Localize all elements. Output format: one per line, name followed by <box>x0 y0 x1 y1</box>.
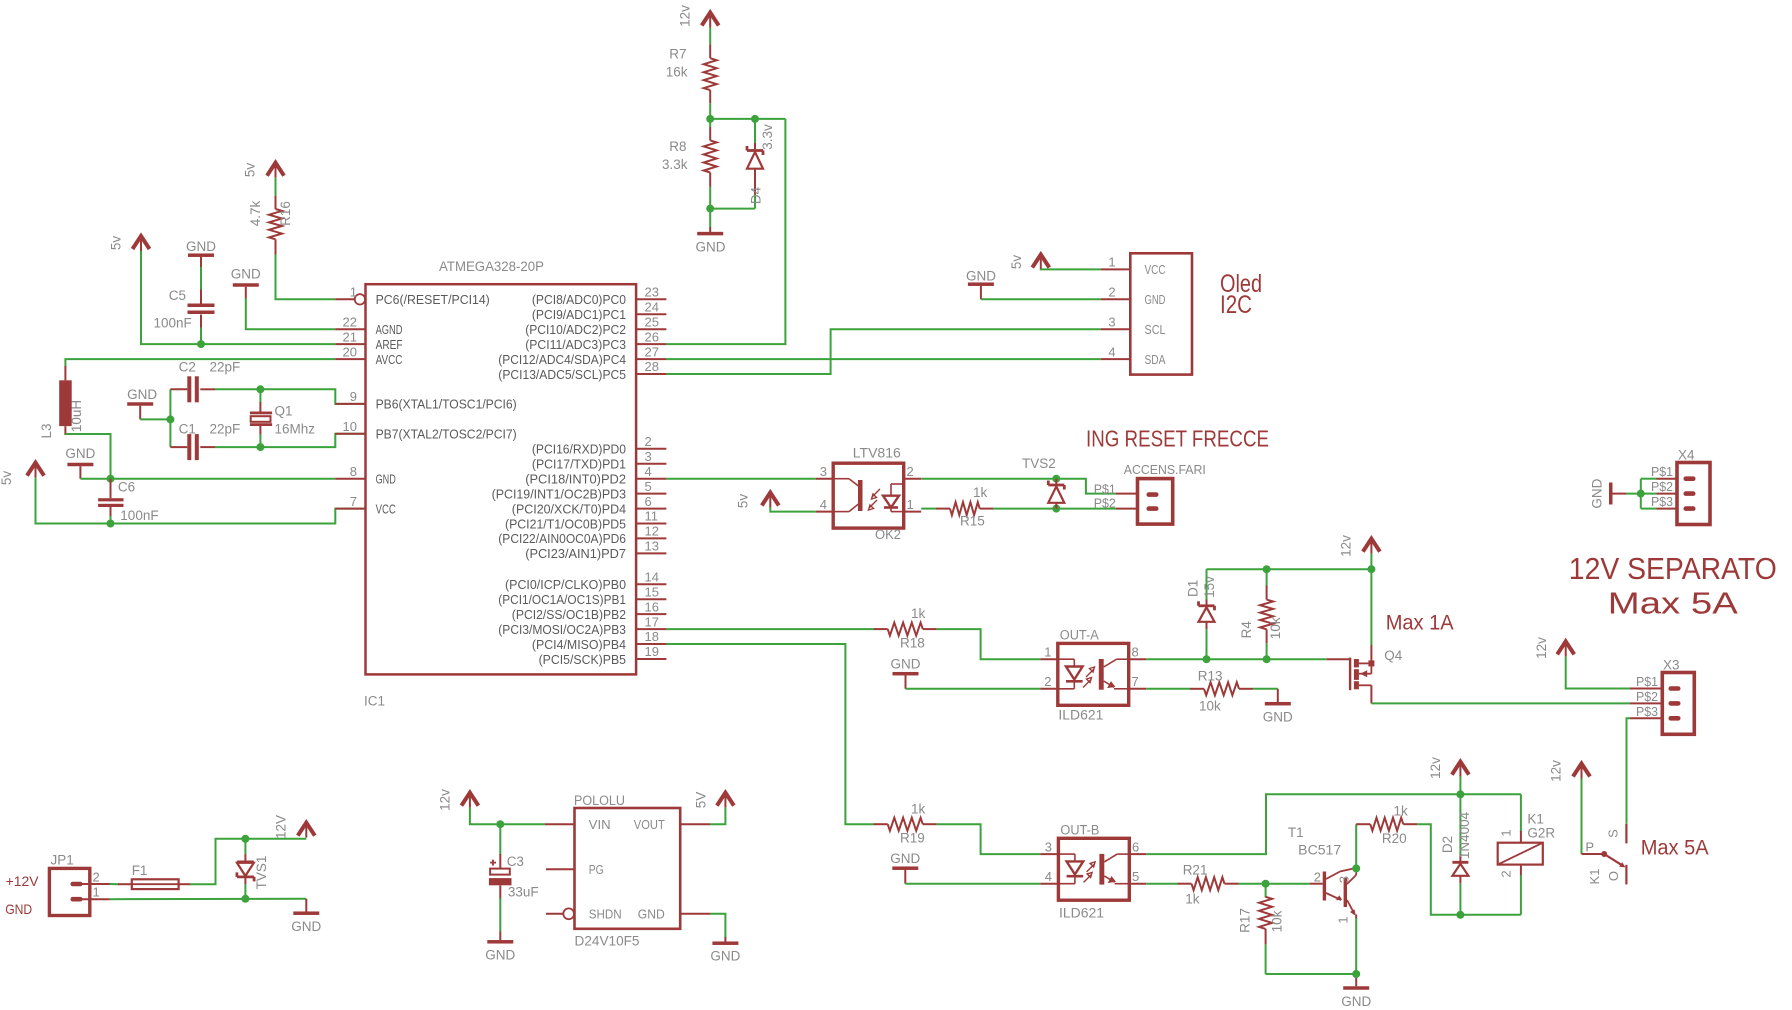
power flag 5v (VCC row) <box>27 463 44 476</box>
svg-text:12v: 12v <box>438 789 453 811</box>
wire IC1 pin 17 to R18 <box>666 628 874 630</box>
IC1 pin 16 (PCI2/SS/OC1B)PB2 <box>636 613 666 615</box>
resistor R7 16k <box>709 44 711 58</box>
wire POLOLU GND <box>710 914 725 938</box>
svg-text:VCC: VCC <box>376 501 396 516</box>
svg-text:R17: R17 <box>1238 908 1253 933</box>
wire C2 to pin 9 <box>215 389 366 404</box>
svg-text:AREF: AREF <box>376 337 403 352</box>
svg-text:5: 5 <box>1132 869 1139 884</box>
svg-text:2: 2 <box>1314 870 1321 885</box>
svg-text:ATMEGA328-20P: ATMEGA328-20P <box>439 258 544 274</box>
wire 12v rail (D1 top) <box>1207 568 1372 570</box>
wire IC1 pin 18 to R19 <box>666 644 874 824</box>
node R7/R8/D4 junction <box>706 115 714 123</box>
svg-text:PG: PG <box>589 862 604 877</box>
svg-text:7: 7 <box>350 494 357 509</box>
wire R15 to TVS2 bottom <box>993 508 1056 510</box>
svg-text:25: 25 <box>645 314 659 329</box>
wire 12v to relay pole <box>1581 779 1583 855</box>
wire GND to C5 <box>200 267 202 290</box>
node C1/Q1 junction <box>256 443 264 451</box>
power flag 5v (POLOLU VOUT) <box>717 793 734 806</box>
svg-text:GND: GND <box>696 240 726 255</box>
IC1 pin 26 (PCI11/ADC3)PC3 <box>636 343 666 345</box>
resistor R15 1k <box>936 508 950 510</box>
svg-text:23: 23 <box>645 285 659 300</box>
svg-text:5v: 5v <box>736 494 751 509</box>
transistor T1 BC517 <box>1310 883 1323 885</box>
node TVS1 bottom junction <box>241 895 249 903</box>
node TVS1 top junction <box>241 835 249 843</box>
power flag 12v (R7 top) <box>702 13 719 26</box>
svg-text:R19: R19 <box>900 831 925 846</box>
wire 12v to R7 <box>709 28 711 45</box>
svg-text:PB6(XTAL1/TOSC1/PCI6): PB6(XTAL1/TOSC1/PCI6) <box>376 397 517 412</box>
wire C5 to junction <box>200 328 202 345</box>
svg-text:(PCI11/ADC3)PC3: (PCI11/ADC3)PC3 <box>525 337 626 352</box>
svg-text:R8: R8 <box>669 139 686 154</box>
svg-text:3.3k: 3.3k <box>662 157 688 172</box>
diode D2 1N4004 <box>1459 794 1461 855</box>
resistor R13 10k <box>1190 688 1204 690</box>
svg-text:Q1: Q1 <box>275 404 293 419</box>
wire crystal GND <box>140 418 170 420</box>
POLOLU pin VIN <box>545 823 575 825</box>
svg-text:26: 26 <box>645 329 659 344</box>
ground GND (C3) <box>499 932 501 940</box>
wire rail to Q4 drain <box>1370 569 1372 645</box>
IC1 pin 28 (PCI13/ADC5/SCL)PC5 <box>636 373 666 375</box>
svg-text:5: 5 <box>645 479 652 494</box>
svg-text:4: 4 <box>645 464 652 479</box>
svg-text:(PCI0/ICP/CLKO)PB0: (PCI0/ICP/CLKO)PB0 <box>505 577 626 592</box>
svg-text:1: 1 <box>1044 644 1051 659</box>
IC1 pin 12 (PCI22/AIN0OC0A)PD6 <box>636 537 666 539</box>
svg-text:1k: 1k <box>911 606 926 621</box>
svg-text:C3: C3 <box>507 854 524 869</box>
IC1 pin 14 (PCI0/ICP/CLKO)PB0 <box>636 583 666 585</box>
power flag 12v (relay) <box>1452 762 1469 775</box>
wire X3 P$3 to relay S <box>1627 718 1631 824</box>
wire GND to OLED pin 2 <box>981 298 1101 300</box>
resistor R20 1k <box>1356 823 1370 825</box>
svg-text:IC1: IC1 <box>364 694 385 709</box>
wire OK2 pin 2 to TVS2 <box>921 478 1056 480</box>
IC1 pin 19 (PCI5/SCK)PB5 <box>636 658 666 660</box>
wire R8 to lower node <box>709 187 711 228</box>
svg-text:C6: C6 <box>118 480 135 495</box>
ground GND (T1 emitter) <box>1355 974 1357 986</box>
svg-text:GND: GND <box>1341 994 1371 1009</box>
node TVS2 bottom junction <box>1052 505 1060 513</box>
svg-text:5V: 5V <box>694 792 709 809</box>
svg-text:LTV816: LTV816 <box>853 446 901 461</box>
wire 5v to AREF row <box>141 251 335 344</box>
svg-text:+12V: +12V <box>6 873 40 889</box>
svg-text:13: 13 <box>645 539 659 554</box>
IC1 pin 21 AREF <box>335 343 365 345</box>
svg-text:9: 9 <box>350 389 357 404</box>
svg-text:14: 14 <box>645 569 659 584</box>
svg-text:10k: 10k <box>1270 910 1285 932</box>
svg-text:(PCI22/AIN0OC0A)PD6: (PCI22/AIN0OC0A)PD6 <box>498 531 626 546</box>
power flag 12v (X3 P$1) <box>1557 641 1574 654</box>
POLOLU pin SHDN <box>546 913 563 915</box>
svg-text:6: 6 <box>645 494 652 509</box>
power flag 5v (OLED VCC) <box>1032 255 1049 268</box>
svg-text:ILD621: ILD621 <box>1059 905 1104 920</box>
ground GND (R8 bottom) <box>709 227 711 232</box>
svg-text:P$3: P$3 <box>1651 494 1673 509</box>
wire TVS2 to ACCENS.FARI P$1 <box>1056 479 1116 494</box>
wire 12v to rail <box>1370 554 1372 570</box>
optocoupler OUT-B ILD621 <box>1058 838 1129 900</box>
connector X4 <box>1677 463 1710 525</box>
svg-text:4: 4 <box>1108 344 1115 359</box>
wire lower node to D4 anode <box>710 208 755 210</box>
svg-text:10k: 10k <box>1199 699 1221 714</box>
capacitor C2 22pF <box>170 388 187 390</box>
svg-text:3: 3 <box>1108 314 1115 329</box>
svg-text:GND: GND <box>291 919 321 934</box>
svg-text:AVCC: AVCC <box>376 352 403 367</box>
svg-text:PB7(XTAL2/TOSC2/PCI7): PB7(XTAL2/TOSC2/PCI7) <box>376 427 517 442</box>
wire node to D4 column <box>710 118 785 120</box>
node C6/VCC junction <box>107 520 115 528</box>
svg-text:X3: X3 <box>1663 658 1680 673</box>
svg-text:(PCI8/ADC0)PC0: (PCI8/ADC0)PC0 <box>532 292 626 307</box>
IC1 pin 1 PC6(/RESET/PCI14) <box>335 298 354 300</box>
svg-text:21: 21 <box>343 329 357 344</box>
IC1 pin 15 (PCI1/OC1A/OC1S)PB1 <box>636 598 666 600</box>
resistor R21 1k <box>1178 883 1192 885</box>
wire 5v to R16 <box>275 178 277 196</box>
svg-text:5v: 5v <box>1009 255 1024 270</box>
node C3 junction <box>496 820 504 828</box>
svg-text:JP1: JP1 <box>51 853 74 868</box>
svg-text:3: 3 <box>1045 839 1052 854</box>
svg-text:3.3v: 3.3v <box>760 124 775 150</box>
svg-text:Max 5A: Max 5A <box>1608 586 1738 621</box>
svg-text:2: 2 <box>907 464 914 479</box>
node D2 bottom junction <box>1456 911 1464 919</box>
svg-text:(PCI10/ADC2)PC2: (PCI10/ADC2)PC2 <box>525 322 626 337</box>
wire R21 to T1 base <box>1239 883 1310 885</box>
IC1 pin 10 PB7(XTAL2/TOSC2/PCI7) <box>335 433 365 435</box>
svg-text:(PCI21/T1/OC0B)PD5: (PCI21/T1/OC0B)PD5 <box>505 516 626 531</box>
svg-text:SDA: SDA <box>1145 352 1166 367</box>
wire OUT-B pin 6 to 12v rail <box>1146 794 1521 854</box>
svg-text:C1: C1 <box>179 422 196 437</box>
svg-text:R13: R13 <box>1198 669 1223 684</box>
capacitor C5 100nF <box>200 290 202 304</box>
svg-text:PC6(/RESET/PCI14): PC6(/RESET/PCI14) <box>376 292 490 307</box>
svg-text:12v: 12v <box>1428 757 1443 779</box>
connector ACCENS.FARI <box>1138 479 1173 524</box>
IC1 pin 4 (PCI18/INT0)PD2 <box>636 478 666 480</box>
svg-text:OK2: OK2 <box>875 527 901 542</box>
svg-text:GND: GND <box>485 948 515 963</box>
node R17 top junction <box>1262 880 1270 888</box>
svg-text:GND: GND <box>186 239 216 254</box>
svg-text:K1: K1 <box>1527 811 1544 826</box>
resistor R16 4.7k <box>275 196 277 209</box>
svg-text:12V SEPARATO: 12V SEPARATO <box>1569 551 1777 586</box>
zener TVS2 <box>1055 479 1057 484</box>
svg-text:8: 8 <box>1132 644 1139 659</box>
svg-text:GND: GND <box>890 851 920 866</box>
power flag 12v (input) <box>298 823 315 836</box>
svg-text:(PCI13/ADC5/SCL)PC5: (PCI13/ADC5/SCL)PC5 <box>498 367 626 382</box>
svg-text:D2: D2 <box>1440 836 1455 853</box>
svg-text:22: 22 <box>343 314 357 329</box>
wire 12v to relay rail <box>1459 777 1461 795</box>
svg-text:GND: GND <box>5 901 32 917</box>
svg-text:GND: GND <box>710 949 740 964</box>
svg-text:(PCI18/INT0)PD2: (PCI18/INT0)PD2 <box>525 472 626 487</box>
node L3/C6 junction <box>107 475 115 483</box>
wire IC1 pin 4 to OK2 pin 3 <box>666 478 815 480</box>
wire GND to OUT-A pin 2 <box>906 688 1041 690</box>
IC1 pin 8 GND <box>335 478 365 480</box>
wire 5v to OLED pin 1 <box>1041 268 1101 270</box>
svg-text:Q4: Q4 <box>1384 648 1403 663</box>
connector X3 <box>1662 673 1694 735</box>
svg-text:2: 2 <box>1499 870 1514 877</box>
svg-text:D4: D4 <box>749 186 764 204</box>
svg-text:2: 2 <box>1044 674 1051 689</box>
svg-text:100nF: 100nF <box>120 508 158 523</box>
wire R16 to RESET pin 1 <box>276 255 336 300</box>
svg-text:2: 2 <box>645 434 652 449</box>
node crystal GND junction <box>166 415 174 423</box>
svg-text:R20: R20 <box>1382 831 1407 846</box>
wire R20 to bottom rail <box>1417 824 1521 915</box>
svg-text:ING RESET FRECCE: ING RESET FRECCE <box>1086 426 1269 452</box>
power flag 12v (relay common) <box>1573 764 1590 777</box>
svg-text:(PCI12/ADC4/SDA)PC4: (PCI12/ADC4/SDA)PC4 <box>498 352 626 367</box>
svg-text:(PCI5/SCK)PB5: (PCI5/SCK)PB5 <box>539 652 626 667</box>
power flag 12v (Q4 drain) <box>1363 539 1380 552</box>
wire C1 to pin 10 <box>215 434 366 447</box>
svg-text:1N4004: 1N4004 <box>1457 811 1472 859</box>
svg-text:P$1: P$1 <box>1636 674 1658 689</box>
wire JP1 pin 2 to F1 <box>110 883 120 885</box>
wire GND row to pin 8 <box>80 478 335 480</box>
crystal Q1 16Mhz <box>259 389 261 403</box>
svg-text:1k: 1k <box>1394 804 1409 819</box>
wire OUT-A pin 8 to gate node <box>1146 658 1327 660</box>
wire AVCC pin 20 to L3 <box>65 359 335 367</box>
svg-text:P$2: P$2 <box>1636 689 1658 704</box>
wire R13 to GND <box>1253 688 1278 690</box>
svg-text:7: 7 <box>1132 674 1139 689</box>
IC1 pin 24 (PCI9/ADC1)PC1 <box>636 313 666 315</box>
connector U2 Oled I2C <box>1130 253 1192 374</box>
node emitter GND junction <box>1352 970 1360 978</box>
power flag 5v (OK2 pin 4) <box>762 493 779 506</box>
node R8/D4 bottom junction <box>706 205 714 213</box>
power flag 12v (POLOLU VIN) <box>461 793 478 806</box>
svg-text:POLOLU: POLOLU <box>574 793 625 808</box>
svg-text:TVS1: TVS1 <box>254 856 269 890</box>
svg-text:T1: T1 <box>1288 825 1304 840</box>
inductor L3 10uH <box>64 366 66 380</box>
IC1 pin 5 (PCI19/INT1/OC2B)PD3 <box>636 493 666 495</box>
power flag 5v (AREF) <box>133 236 150 249</box>
svg-text:TVS2: TVS2 <box>1022 456 1056 471</box>
zener TVS1 <box>244 839 246 855</box>
svg-text:GND: GND <box>891 657 921 672</box>
svg-text:10k: 10k <box>1268 617 1283 639</box>
svg-text:VCC: VCC <box>1145 262 1166 277</box>
svg-text:GND: GND <box>1590 478 1605 508</box>
svg-text:K1: K1 <box>1587 869 1602 885</box>
resistor R18 1k <box>874 628 888 630</box>
power flag 5v (R16 top) <box>267 163 284 176</box>
POLOLU pin PG <box>546 868 575 870</box>
svg-text:P$1: P$1 <box>1651 464 1673 479</box>
svg-text:R16: R16 <box>278 201 293 226</box>
wire SDA pin 27 to OLED pin 4 <box>666 358 1100 360</box>
svg-text:O: O <box>1606 871 1621 881</box>
svg-text:F1: F1 <box>132 863 148 878</box>
svg-text:D1: D1 <box>1186 580 1201 597</box>
svg-text:R21: R21 <box>1183 863 1208 878</box>
svg-text:(PCI19/INT1/OC2B)PD3: (PCI19/INT1/OC2B)PD3 <box>492 486 626 501</box>
resistor R19 1k <box>874 823 888 825</box>
svg-text:12v: 12v <box>1534 637 1549 659</box>
svg-text:SCL: SCL <box>1145 322 1166 337</box>
wire GND to AGND pin 22 <box>246 298 335 329</box>
svg-text:11: 11 <box>645 509 659 524</box>
IC1 pin 7 VCC <box>335 508 365 510</box>
wire C6 to VCC row <box>110 516 112 524</box>
svg-text:10: 10 <box>343 419 357 434</box>
wire 5v VCC row to pin 7 <box>36 478 366 524</box>
svg-text:X4: X4 <box>1678 448 1695 463</box>
svg-text:4: 4 <box>1045 869 1052 884</box>
svg-text:R4: R4 <box>1239 621 1254 639</box>
svg-text:1k: 1k <box>911 802 926 817</box>
svg-text:GND: GND <box>638 907 665 922</box>
wire crystal left rail <box>169 389 171 447</box>
IC1 pin 18 (PCI4/MISO)PB4 <box>636 643 666 645</box>
IC1 pin 6 (PCI20/XCK/T0)PD4 <box>636 508 666 510</box>
POLOLU pin VOUT <box>680 823 710 825</box>
svg-text:1: 1 <box>350 285 357 300</box>
node R4 bottom junction <box>1263 655 1271 663</box>
optocoupler OK2 LTV816 <box>833 463 904 528</box>
ground GND (R13) <box>1277 689 1279 702</box>
svg-text:R18: R18 <box>900 636 925 651</box>
svg-text:1: 1 <box>1499 829 1514 836</box>
IC1 pin 17 (PCI3/MOSI/OC2A)PB3 <box>636 628 666 630</box>
svg-text:VOUT: VOUT <box>634 817 665 832</box>
svg-text:19: 19 <box>645 644 659 659</box>
svg-text:1: 1 <box>907 497 914 512</box>
wire JP1 pin 1 GND row <box>110 898 307 900</box>
svg-text:VIN: VIN <box>589 817 611 832</box>
svg-text:4.7k: 4.7k <box>248 200 263 226</box>
IC1 pin 11 (PCI21/T1/OC0B)PD5 <box>636 523 666 525</box>
wire collector to R20 <box>1355 824 1357 868</box>
svg-text:L3: L3 <box>39 423 54 438</box>
capacitor C6 100nF <box>110 479 112 499</box>
svg-text:GND: GND <box>1145 292 1166 307</box>
IC1 pin 9 PB6(XTAL1/TOSC1/PCI6) <box>335 403 365 405</box>
relay K1 coil <box>1520 794 1522 832</box>
svg-text:GND: GND <box>127 387 157 402</box>
svg-text:12v: 12v <box>678 5 693 27</box>
resistor R4 10k <box>1266 569 1268 586</box>
svg-text:15: 15 <box>645 584 659 599</box>
node R4 top junction <box>1263 565 1271 573</box>
relay K1 switch <box>1582 853 1603 855</box>
svg-text:P: P <box>1585 839 1594 854</box>
svg-text:P$1: P$1 <box>1094 481 1116 496</box>
wire R18 to OUT-A pin 1 <box>937 629 1041 659</box>
svg-text:SHDN: SHDN <box>589 907 622 922</box>
svg-text:2: 2 <box>93 869 100 884</box>
capacitor C1 22pF <box>170 446 187 448</box>
wire X4 bus <box>1641 478 1657 480</box>
wire pin 7 to R13 <box>1146 688 1190 690</box>
IC1 pin 25 (PCI10/ADC2)PC2 <box>636 328 666 330</box>
svg-text:24: 24 <box>645 299 659 314</box>
wire T1 emitter down <box>1355 918 1357 974</box>
svg-text:Max 1A: Max 1A <box>1386 612 1454 635</box>
resistor R17 10k <box>1265 884 1267 898</box>
IC1 pin 27 (PCI12/ADC4/SDA)PC4 <box>636 358 666 360</box>
svg-text:12v: 12v <box>1549 760 1564 782</box>
svg-text:1: 1 <box>1336 916 1351 923</box>
svg-text:17: 17 <box>645 614 659 629</box>
svg-text:C5: C5 <box>169 288 186 303</box>
node D4 top junction <box>751 115 759 123</box>
wire TVS2 to P$2 <box>1056 508 1116 510</box>
node TVS2 top junction <box>1052 475 1060 483</box>
node T1 collector junction <box>1352 864 1360 872</box>
svg-text:12v: 12v <box>1339 535 1354 557</box>
svg-text:12V: 12V <box>274 815 289 839</box>
svg-text:27: 27 <box>645 344 659 359</box>
zener diode D1 15v <box>1206 569 1208 600</box>
svg-text:1: 1 <box>1108 255 1115 270</box>
IC1 pin 3 (PCI17/TXD)PD1 <box>636 463 666 465</box>
node D1 bottom junction <box>1203 655 1211 663</box>
wire VOUT to 5v <box>710 808 725 825</box>
svg-text:8: 8 <box>350 464 357 479</box>
node C2/Q1 junction <box>256 385 264 393</box>
svg-text:(PCI17/TXD)PD1: (PCI17/TXD)PD1 <box>532 457 626 472</box>
node 12v rail junction <box>1367 565 1375 573</box>
svg-text:S: S <box>1606 829 1621 838</box>
svg-text:20: 20 <box>343 344 357 359</box>
svg-text:12: 12 <box>645 524 659 539</box>
ground GND (input) <box>305 899 307 912</box>
svg-text:16: 16 <box>645 599 659 614</box>
svg-text:(PCI23/AIN1)PD7: (PCI23/AIN1)PD7 <box>525 546 626 561</box>
wire R19 to OUT-B pin 3 <box>937 824 1041 854</box>
svg-text:GND: GND <box>65 446 95 461</box>
node X4 GND junction <box>1637 490 1645 498</box>
svg-text:16k: 16k <box>666 65 688 80</box>
svg-text:P$2: P$2 <box>1651 479 1673 494</box>
svg-text:22pF: 22pF <box>210 422 241 437</box>
wire F1 to 12v rail <box>190 839 306 884</box>
